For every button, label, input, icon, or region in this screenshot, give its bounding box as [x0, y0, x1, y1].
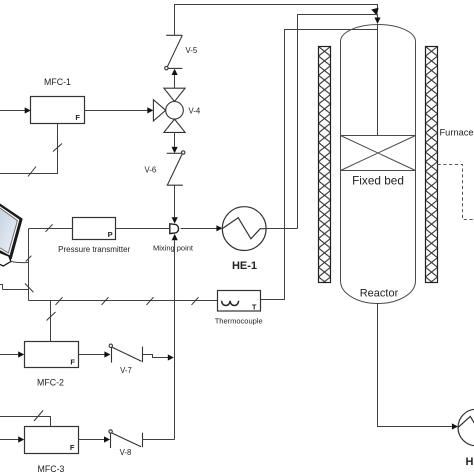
svg-text:MFC-2: MFC-2: [37, 378, 64, 388]
wire feed line into MFC-2: [0, 354, 20, 356]
slash on MFC-1 signal vertical: [53, 144, 62, 152]
heat exchanger HE-2: [458, 409, 474, 446]
wire V-6 down to mixing point: [174, 185, 176, 217]
wire feed line into MFC-1: [0, 110, 26, 112]
svg-text:V-5: V-5: [186, 46, 198, 55]
fixed bed (catalyst): [341, 136, 416, 171]
arrow down into mixing point: [172, 217, 178, 223]
heat exchanger HE-1: [222, 207, 266, 251]
wire V-7 to mixing line with jog: [142, 355, 168, 358]
mixing point symbol: [170, 224, 179, 234]
wire V-5 riser to top and across to reactor: [175, 5, 378, 36]
wire computer cable to bus: [11, 262, 29, 263]
svg-text:V-4: V-4: [189, 107, 201, 116]
svg-text:V-7: V-7: [120, 366, 132, 375]
arrow down to junction (tilted): [371, 7, 380, 16]
valve V-4 (3-way): [153, 88, 185, 132]
arrow into MFC-2: [18, 351, 24, 357]
svg-text:V-6: V-6: [145, 166, 157, 175]
computer monitor: [0, 200, 23, 267]
furnace bar right: [426, 47, 438, 283]
wire main mixing line vertical: [174, 240, 176, 439]
arrow into HE-1: [216, 225, 222, 231]
arrow up into mixing point: [172, 234, 178, 240]
wire reactor outlet to HE-2: [378, 304, 452, 427]
MFC-1 box: [31, 97, 85, 124]
wire MFC-1 to V-4: [85, 110, 149, 112]
arrow into V-8: [104, 436, 110, 442]
svg-text:F: F: [70, 443, 75, 452]
valve V-5: [165, 35, 183, 70]
wire stub at left edge joining bus: [0, 285, 29, 290]
wire mixing point to HE-1: [181, 228, 217, 230]
svg-text:HE-2: HE-2: [466, 456, 474, 468]
arrow into V-6: [172, 147, 178, 153]
wire feed line into MFC-3: [0, 439, 20, 441]
wire MFC-3 signal up and left: [0, 417, 51, 427]
arrow into V-4: [147, 107, 153, 113]
svg-text:Mixing point: Mixing point: [153, 244, 194, 253]
wire thermocouple probe inside reactor: [377, 24, 379, 135]
svg-text:HE-1: HE-1: [232, 260, 257, 272]
arrow into MFC-3: [18, 436, 24, 442]
svg-text:Furnace: Furnace: [440, 127, 474, 137]
slash marks on signal line: [56, 297, 199, 305]
wire bus to pressure transmitter: [29, 228, 74, 230]
svg-text:Reactor: Reactor: [360, 288, 399, 300]
svg-text:Pressure transmitter: Pressure transmitter: [58, 245, 130, 254]
furnace bar left: [319, 47, 331, 283]
wire MFC-2 to V-7: [79, 354, 106, 356]
MFC-3 box: [25, 427, 79, 454]
wire V-4 up to V-5: [174, 75, 176, 88]
wire junction down into reactor dome: [377, 14, 379, 17]
svg-text:Fixed bed: Fixed bed: [352, 174, 404, 188]
slash on MFC-3 signal: [34, 411, 43, 422]
valve V-7: [109, 344, 142, 363]
svg-text:P: P: [108, 230, 113, 239]
svg-text:MFC-1: MFC-1: [44, 77, 71, 87]
slash on cable: [26, 256, 32, 262]
svg-text:V-8: V-8: [120, 448, 132, 457]
MFC-2 box: [25, 342, 79, 368]
svg-text:F: F: [75, 113, 80, 122]
arrow into HE-2: [452, 423, 458, 429]
slash on transmitter line: [46, 224, 53, 231]
arrow into MFC-1: [25, 107, 31, 113]
arrow into V-7: [104, 351, 110, 357]
reactor vessel: [341, 25, 416, 304]
svg-text:MFC-3: MFC-3: [38, 464, 65, 474]
wire V-8 to mixing line corner: [142, 439, 175, 441]
wire transmitter to mixing point: [116, 228, 170, 230]
slash at bus junction: [25, 284, 34, 293]
pressure transmitter box: [73, 218, 116, 240]
valve V-6: [174, 132, 176, 147]
svg-text:T: T: [252, 303, 257, 312]
valve V-8: [109, 430, 143, 448]
svg-text:F: F: [70, 358, 75, 367]
wire left signal bus vertical: [28, 229, 30, 301]
wire HE-1 outlet riser and across to reactor: [298, 15, 378, 229]
thermocouple box: [218, 291, 261, 312]
wire HE-1 outlet: [266, 228, 297, 230]
svg-text:Thermocouple: Thermocouple: [215, 317, 263, 326]
arrow into mixing line: [168, 354, 174, 360]
thermocouple wave symbol: [222, 301, 239, 306]
wire long signal line to thermocouple: [29, 300, 218, 302]
slash on MFC-2 signal: [47, 312, 56, 321]
arrow into reactor dome: [374, 18, 380, 24]
slash on MFC-1 signal horizontal: [28, 167, 36, 177]
wire MFC-2 signal up to bus line: [50, 301, 52, 342]
dashed leader from furnace: [438, 165, 474, 220]
wire thermocouple line top run: [260, 30, 378, 300]
wire MFC-1 signal down-left: [0, 124, 58, 174]
wire MFC-3 to V-8: [79, 439, 105, 441]
arrow up into V-5: [172, 69, 178, 75]
